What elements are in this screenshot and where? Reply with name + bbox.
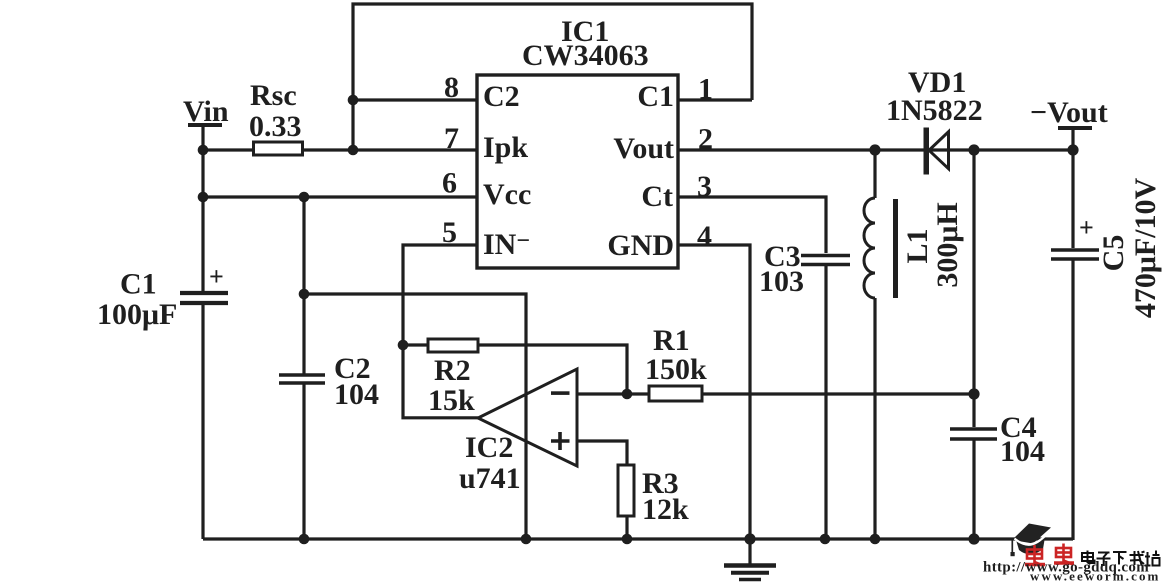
junction node dots: [198, 95, 1079, 545]
wire pin6 Vcc row: [203, 195, 477, 198]
op-amp minus sign: [551, 391, 570, 395]
svg-text:103: 103: [759, 265, 804, 298]
svg-text:470μF/10V: 470μF/10V: [1129, 178, 1162, 319]
wire C3 lower: [824, 264, 827, 539]
svg-text:IC2: IC2: [465, 431, 513, 464]
svg-text:1N5822: 1N5822: [886, 94, 983, 127]
svg-text:15k: 15k: [428, 384, 475, 417]
svg-text:Vcc: Vcc: [483, 178, 531, 211]
svg-text:R2: R2: [434, 354, 471, 387]
svg-text:1: 1: [698, 73, 713, 106]
svg-text:CW34063: CW34063: [522, 39, 649, 72]
wire C2 branch vertical lower: [302, 383, 305, 539]
zhan: [1147, 552, 1149, 566]
IC U1 CW34063 box: [477, 75, 678, 268]
inductor L1 core bar: [893, 199, 898, 298]
svg-text:0.33: 0.33: [249, 110, 302, 143]
wire noninverting input to R3: [576, 441, 627, 539]
svg-text:Ct: Ct: [641, 180, 673, 213]
svg-text:8: 8: [444, 71, 459, 104]
resistor R2 body: [428, 339, 478, 352]
resistor R3 body: [618, 465, 634, 516]
wire pin8 to IC: [353, 98, 477, 101]
op-amp plus sign: [551, 432, 570, 450]
svg-text:Vin: Vin: [183, 95, 229, 128]
wire bottom rail: [203, 537, 1073, 540]
resistor R1 body: [649, 386, 702, 401]
dian: [1082, 553, 1093, 561]
wire pin4 GND down: [678, 245, 750, 539]
capacitor C5 plates: [1051, 250, 1099, 259]
zi: [1098, 552, 1110, 554]
svg-text:C1: C1: [120, 268, 157, 301]
resistor Rsc body: [254, 142, 303, 155]
wire C4 branch upper: [972, 150, 975, 427]
svg-text:www.eeworm.com: www.eeworm.com: [1030, 569, 1160, 582]
wire pin5 IN-: [403, 245, 478, 418]
wire top loop from pin8 node to pin1: [353, 4, 752, 150]
watermark graduation cap icon: [1011, 524, 1052, 557]
capacitor C2 plates: [279, 375, 325, 383]
wire C5 branch upper: [1071, 128, 1074, 248]
svg-text:u741: u741: [459, 462, 521, 495]
svg-text:5: 5: [442, 216, 457, 249]
wire pin2 Vout row: [678, 148, 1073, 151]
wire inverting input row through R1: [576, 392, 974, 395]
svg-text:104: 104: [334, 378, 379, 411]
svg-text:Vout: Vout: [613, 132, 674, 165]
watermark black site name glyphs: [1082, 551, 1160, 566]
capacitor C1 plates: [180, 293, 228, 303]
capacitor C4 plates: [950, 429, 997, 439]
svg-text:+: +: [209, 262, 224, 291]
wire C2 branch vertical upper: [302, 197, 305, 374]
svg-text:C1: C1: [637, 80, 674, 113]
zai: [1130, 554, 1144, 556]
svg-text:Rsc: Rsc: [250, 79, 297, 112]
wire C5 branch lower: [1071, 258, 1074, 540]
wire pin7 row: [203, 148, 477, 151]
diode VD1 triangle: [929, 132, 949, 169]
svg-text:−Vout: −Vout: [1030, 96, 1108, 129]
svg-text:150k: 150k: [645, 353, 707, 386]
svg-text:3: 3: [697, 170, 712, 203]
watermark red chongchong characters: [1025, 544, 1074, 567]
ground symbol bars: [724, 566, 776, 580]
ground stem: [748, 539, 751, 564]
terminal -Vout tick: [1058, 126, 1092, 130]
wire pin3 Ct to C3 upper: [678, 197, 826, 253]
op-amp U2 triangle: [478, 369, 577, 466]
svg-text:104: 104: [1000, 435, 1045, 468]
svg-text:C2: C2: [483, 80, 520, 113]
svg-text:GND: GND: [607, 229, 674, 262]
wire pin1 to IC: [678, 98, 752, 101]
terminal Vin tick: [188, 123, 222, 127]
wire L1 branch lower: [873, 298, 876, 539]
svg-text:4: 4: [697, 220, 712, 253]
xia: [1113, 551, 1127, 553]
wire C4 branch lower: [972, 438, 975, 539]
wire Vin left rail lower: [201, 305, 204, 539]
svg-text:C5: C5: [1097, 235, 1130, 272]
svg-text:L1: L1: [901, 228, 934, 263]
inductor L1 coil: [864, 198, 875, 298]
svg-text:7: 7: [444, 122, 459, 155]
capacitor C3 plates: [801, 256, 850, 265]
svg-text:300μH: 300μH: [931, 202, 964, 287]
svg-text:6: 6: [442, 167, 457, 200]
wire R2 row: [403, 345, 627, 394]
diode VD1 cathode bar: [924, 128, 930, 175]
svg-text:100μF: 100μF: [97, 298, 177, 331]
wire Vin left rail upper: [201, 126, 204, 291]
svg-text:Ipk: Ipk: [483, 131, 528, 164]
svg-text:+: +: [1079, 213, 1094, 242]
svg-text:12k: 12k: [642, 493, 689, 526]
wire opamp supply branch: [304, 294, 526, 539]
wire L1 branch upper: [873, 150, 876, 198]
svg-text:2: 2: [698, 123, 713, 156]
